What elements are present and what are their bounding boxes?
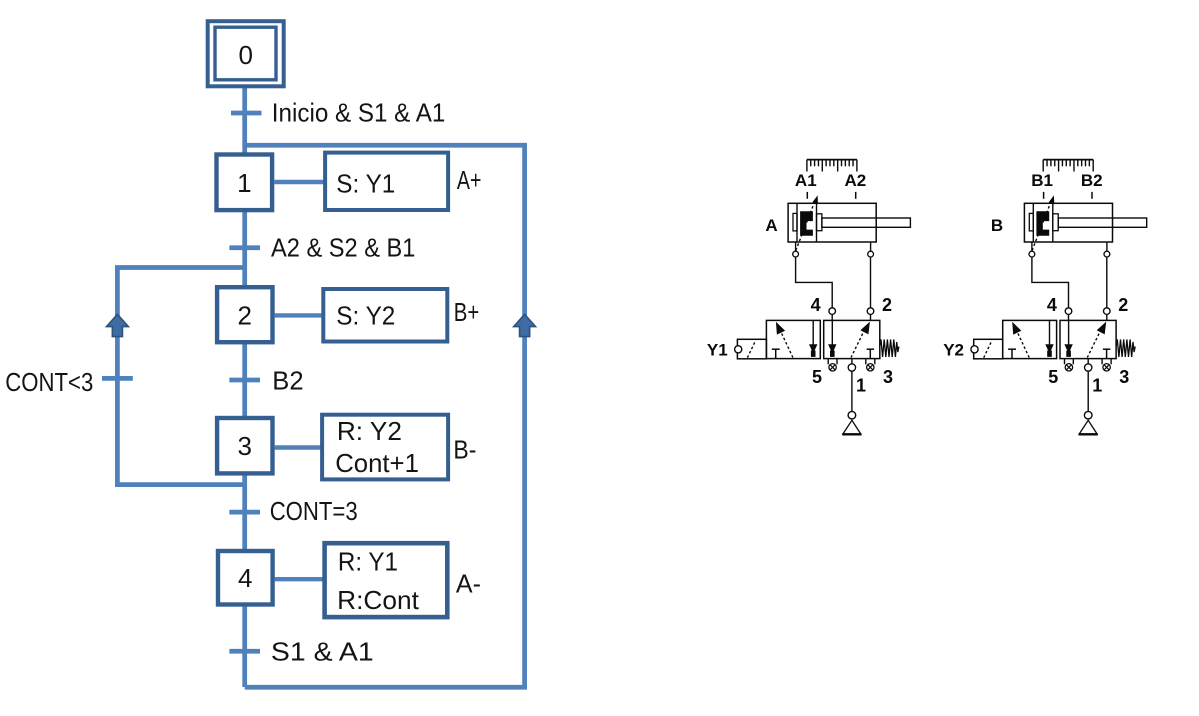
ruler scale (cylinder A): [807, 160, 857, 172]
svg-text:Cont+1: Cont+1: [335, 448, 419, 478]
valve port 2 connection: [867, 308, 874, 321]
cylinder B body: [1024, 203, 1112, 242]
svg-text:A+: A+: [457, 165, 482, 195]
cylinder port right: [1104, 242, 1110, 257]
svg-text:B+: B+: [454, 297, 480, 327]
svg-text:Y1: Y1: [707, 340, 728, 359]
cylinder port left: [1029, 242, 1035, 257]
svg-text:B2: B2: [1081, 171, 1103, 190]
sensor tick B1: [1043, 192, 1045, 199]
svg-text:1: 1: [237, 168, 251, 198]
svg-text:Y2: Y2: [943, 340, 964, 359]
action box 4 R: Y1 / R:Cont: [325, 543, 448, 617]
step 0 (initial step): [208, 21, 284, 86]
svg-text:A2: A2: [845, 171, 867, 190]
step 2: [217, 287, 272, 342]
left cell down flow arrow: [809, 320, 817, 357]
svg-text:R: Y2: R: Y2: [337, 416, 402, 446]
cylinder A body: [788, 203, 876, 242]
right cell blocked port T: [1103, 349, 1111, 358]
svg-text:B: B: [991, 216, 1003, 235]
wire step3-action3: [275, 445, 322, 449]
svg-text:5: 5: [812, 367, 822, 387]
left cell blocked port T: [1008, 349, 1016, 358]
valve Y2 body left cell: [1003, 320, 1057, 358]
svg-text:A1: A1: [795, 171, 817, 190]
valve Y1 body right cell: [824, 320, 880, 358]
right cell blocked port T: [867, 349, 875, 358]
transition t1 tick: [231, 111, 262, 116]
piston rod: [817, 214, 911, 231]
svg-text:2: 2: [1118, 295, 1128, 315]
svg-text:B2: B2: [272, 365, 303, 395]
port 1 connection: [1085, 359, 1092, 372]
piston position dashed arrow: [1032, 195, 1054, 250]
piston position dashed arrow: [796, 195, 818, 250]
svg-text:B1: B1: [1031, 171, 1053, 190]
air supply connection circle: [848, 411, 856, 419]
supply line: [1087, 371, 1089, 411]
cylinder port left: [793, 242, 799, 257]
right cell down flow arrow (port 4 to 5): [1064, 320, 1072, 357]
svg-text:2: 2: [882, 295, 892, 315]
arrow up on right feedback line: [514, 314, 536, 336]
port 1 connection: [848, 359, 855, 372]
right cell flow arrow 1 to 2 (diagonal): [1087, 322, 1106, 358]
step 3: [217, 418, 272, 473]
action box 1 S: Y1: [325, 153, 448, 210]
wire feedback loop right: [245, 145, 525, 687]
tube right port to valve port 2: [870, 257, 872, 308]
svg-text:CONT=3: CONT=3: [270, 496, 358, 526]
svg-text:1: 1: [1092, 376, 1102, 396]
piston rod: [1053, 214, 1147, 231]
wire left loop CONT<3 branch: [117, 268, 244, 485]
valve port 2 connection: [1104, 308, 1111, 321]
svg-text:B-: B-: [453, 435, 476, 465]
piston magnet (black C): [1036, 211, 1049, 235]
wire step1-action1: [274, 180, 325, 184]
svg-text:4: 4: [1047, 295, 1057, 315]
svg-text:0: 0: [238, 40, 252, 70]
right cell down flow arrow (port 4 to 5): [828, 320, 836, 357]
svg-text:A: A: [765, 216, 777, 235]
sensor tick A1: [806, 192, 808, 199]
port 3 exhaust (circle-x): [866, 359, 875, 371]
tube left port to valve port 4: [796, 257, 833, 308]
wire step4 to bottom: [242, 604, 247, 687]
wire step1 to step2: [242, 210, 247, 287]
solenoid Y1 pilot circle: [735, 346, 742, 353]
wire step0 to step1: [242, 86, 247, 154]
svg-text:S1 & A1: S1 & A1: [271, 636, 374, 666]
svg-text:4: 4: [811, 295, 821, 315]
transition t2 tick: [229, 245, 260, 250]
transition t4 tick CONT=3: [229, 510, 260, 515]
svg-text:2: 2: [237, 300, 251, 330]
air supply triangle: [842, 420, 861, 434]
solenoid Y2 pilot circle: [971, 346, 978, 353]
air supply triangle: [1079, 420, 1098, 434]
tube right port to valve port 2: [1106, 257, 1108, 308]
left cell blocked port T: [772, 349, 780, 358]
solenoid Y2 box: [974, 339, 1003, 359]
ruler scale (cylinder B): [1043, 160, 1093, 172]
return spring: [880, 339, 899, 357]
port 5 exhaust (circle-x): [828, 359, 837, 371]
wire step2 to step3: [242, 342, 247, 417]
svg-text:3: 3: [883, 367, 893, 387]
svg-text:S: Y1: S: Y1: [336, 169, 395, 199]
tube left port to valve port 4: [1032, 257, 1069, 308]
svg-text:Inicio & S1 & A1: Inicio & S1 & A1: [272, 97, 446, 127]
step 1: [217, 155, 273, 211]
svg-text:S: Y2: S: Y2: [336, 301, 395, 331]
svg-text:CONT<3: CONT<3: [5, 367, 93, 397]
return spring: [1116, 339, 1135, 357]
valve Y1 body left cell: [766, 320, 820, 358]
svg-text:A-: A-: [456, 569, 481, 599]
solenoid Y1 box: [737, 339, 766, 359]
valve port 4 connection: [829, 308, 836, 321]
svg-text:5: 5: [1048, 367, 1058, 387]
svg-text:R:Cont: R:Cont: [337, 585, 419, 615]
wire step3 to step4: [242, 473, 247, 550]
left cell flow arrow (diagonal): [1012, 322, 1029, 358]
transition t5 tick S1 & A1: [229, 649, 260, 654]
svg-text:1: 1: [856, 376, 866, 396]
pneumatic circuit A (cylinder A + valve Y1): [707, 160, 910, 435]
svg-text:3: 3: [237, 431, 251, 461]
left cell flow arrow (diagonal): [776, 322, 793, 358]
cylinder port right: [868, 242, 874, 257]
right cell flow arrow 1 to 2 (diagonal): [851, 322, 870, 358]
piston magnet (black C): [800, 211, 813, 235]
svg-text:R: Y1: R: Y1: [338, 547, 398, 577]
step 4: [218, 551, 273, 605]
transition t3 tick B2: [229, 378, 260, 383]
valve port 4 connection: [1065, 308, 1072, 321]
wire step4-action4: [275, 577, 324, 581]
svg-text:A2 & S2 & B1: A2 & S2 & B1: [271, 232, 415, 262]
port 3 exhaust (circle-x): [1102, 359, 1111, 371]
transition t6 tick CONT<3: [102, 376, 133, 381]
svg-text:4: 4: [238, 563, 252, 593]
sensor tick A2: [855, 192, 857, 199]
valve Y2 body right cell: [1060, 320, 1116, 358]
svg-text:3: 3: [1119, 367, 1129, 387]
arrow up on left loop: [107, 314, 129, 336]
port 5 exhaust (circle-x): [1065, 359, 1074, 371]
sensor tick B2: [1091, 192, 1093, 199]
supply line: [851, 371, 853, 411]
wire step2-action2: [275, 313, 323, 317]
pneumatic circuit B (cylinder B + valve Y2): [943, 160, 1146, 435]
action box 2 S: Y2: [323, 289, 447, 342]
air supply connection circle: [1084, 411, 1092, 419]
left cell down flow arrow: [1045, 320, 1053, 357]
action box 3 R: Y2 / Cont+1: [322, 415, 448, 480]
